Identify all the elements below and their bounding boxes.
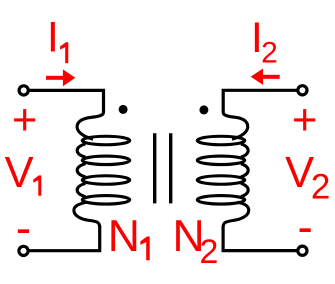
inductor L1 link 1-2 — [77, 144, 85, 157]
svg-text:2: 2 — [200, 233, 219, 271]
inductor L2 turn 1 — [197, 136, 244, 145]
inductor L2 turn 3 — [197, 176, 244, 185]
inductor L2 link 3-4 — [241, 183, 248, 196]
current arrow I1 (points right) — [46, 69, 75, 86]
label V1 subscript 1 — [33, 175, 41, 195]
wire bottom-left (coil to terminal) — [28, 226, 100, 251]
inductor L1 turn 2 — [82, 156, 129, 165]
inductor L1 exit hook — [74, 202, 100, 227]
svg-text:-: - — [16, 202, 31, 254]
wire top-left (terminal to coil) — [28, 90, 103, 112]
svg-text:2: 2 — [261, 36, 278, 69]
inductor L1 link 3-4 — [77, 183, 85, 196]
terminal top-left — [19, 86, 28, 95]
inductor L1 link 2-3 — [77, 164, 85, 177]
inductor L2 link 2-3 — [241, 164, 248, 177]
inductor L1 turn 3 — [82, 176, 129, 185]
terminal top-right — [298, 86, 307, 95]
svg-text:-: - — [298, 201, 313, 253]
current arrow I2 (points left) — [251, 69, 280, 85]
inductor L2 turn 4 — [197, 196, 244, 205]
phasing dot left — [119, 105, 128, 114]
svg-text:2: 2 — [311, 168, 330, 207]
core line left — [153, 133, 156, 203]
core line right — [169, 133, 172, 203]
wire top-right (terminal to coil) — [223, 90, 298, 112]
svg-text:N: N — [108, 212, 140, 261]
terminal bottom-right — [298, 246, 307, 255]
inductor L2 turn 2 — [197, 156, 244, 165]
inductor L2 entry hook — [223, 113, 248, 140]
svg-text:+: + — [12, 97, 37, 145]
inductor L1 turn 1 — [82, 136, 129, 145]
terminal bottom-left — [19, 246, 28, 255]
inductor L2 exit hook — [223, 202, 249, 227]
wire bottom-right (coil to terminal) — [223, 226, 298, 251]
svg-text:V: V — [5, 149, 34, 197]
inductor L1 turn 4 — [82, 196, 129, 205]
svg-text:+: + — [292, 97, 317, 145]
phasing dot right — [199, 105, 208, 114]
label N1 subscript 1 — [140, 237, 149, 261]
inductor L1 entry hook — [77, 113, 103, 140]
inductor L2 link 1-2 — [241, 144, 248, 157]
label I1 subscript 1 — [60, 42, 68, 63]
svg-text:I: I — [47, 14, 59, 62]
svg-text:V: V — [285, 149, 314, 197]
